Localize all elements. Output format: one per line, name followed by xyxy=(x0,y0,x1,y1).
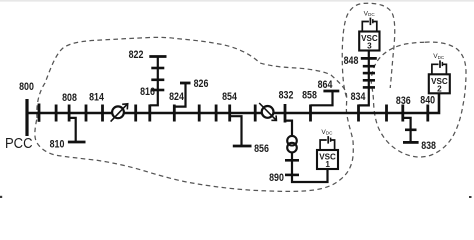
node tick on 848 lateral xyxy=(363,79,375,82)
dc-link capacitor of VSC 3 xyxy=(362,22,377,32)
dc-link capacitor of VSC 1 xyxy=(320,140,335,150)
svg-text:840: 840 xyxy=(420,95,435,107)
bus 814 tick xyxy=(101,105,104,122)
lateral 832-890 wire to transformer xyxy=(285,121,292,137)
svg-text:810: 810 xyxy=(50,139,65,151)
VSC 1 converter xyxy=(317,129,338,169)
svg-text:800: 800 xyxy=(19,81,34,93)
bus 800 bar xyxy=(25,99,28,136)
node tick on 822 lateral xyxy=(151,79,164,82)
wire 890 run to VSC 1 xyxy=(292,152,328,182)
VSC 2 converter xyxy=(429,53,450,93)
bus 832 tick xyxy=(284,104,287,123)
node tick xyxy=(198,105,201,122)
bus 838 bar xyxy=(403,141,419,144)
node tick on 848 lateral xyxy=(363,72,375,75)
svg-text:VDC: VDC xyxy=(321,129,333,136)
lateral 808-810 wire xyxy=(69,118,76,142)
node tick on 848 lateral xyxy=(363,65,375,68)
svg-text:2: 2 xyxy=(437,84,442,93)
dc-link capacitor of VSC 2 xyxy=(432,64,447,74)
bus 854 tick xyxy=(228,105,231,122)
node tick on 890 lateral xyxy=(285,174,299,177)
node tick xyxy=(85,105,88,122)
dashed boundary: microgrid 1 (large left region) xyxy=(35,37,353,191)
svg-text:814: 814 xyxy=(89,92,105,104)
svg-text:1: 1 xyxy=(325,160,330,169)
svg-text:824: 824 xyxy=(169,91,185,103)
transformer T1 bottom winding xyxy=(287,143,297,153)
svg-text:848: 848 xyxy=(344,55,359,67)
svg-text:856: 856 xyxy=(254,143,269,155)
bus labels xyxy=(5,49,436,184)
svg-text:838: 838 xyxy=(421,140,436,152)
transformer T1 top winding xyxy=(287,136,297,146)
corner speck bottom-right xyxy=(469,196,472,198)
bus 808 tick xyxy=(68,105,71,122)
node tick on 890 lateral xyxy=(285,159,299,162)
VSC 3 box xyxy=(359,32,379,51)
VSC 2 box xyxy=(429,74,450,93)
node tick xyxy=(38,104,41,122)
segment ticks on main feeder xyxy=(39,104,428,123)
bus 826 bar xyxy=(180,82,191,85)
dashed boundary: microgrid 2 (right region around VSC 2) xyxy=(371,42,466,157)
bus 840 tick xyxy=(426,105,429,122)
node tick xyxy=(215,105,218,122)
svg-text:3: 3 xyxy=(367,42,372,51)
node tick on 822 lateral xyxy=(151,89,164,92)
node tick xyxy=(254,105,257,122)
svg-text:VDC: VDC xyxy=(364,10,376,17)
bus 864 bar xyxy=(323,90,339,93)
svg-text:858: 858 xyxy=(302,90,317,102)
VSC 1 box xyxy=(317,150,338,169)
bus 834 tick xyxy=(357,105,360,122)
VSC 3 converter xyxy=(359,10,379,50)
lateral 824-826 wire xyxy=(174,83,185,107)
node tick on 838 lateral xyxy=(405,129,417,132)
node tick on 822 lateral xyxy=(151,67,164,70)
bus 858 tick xyxy=(309,105,312,122)
lateral 816-822 wire xyxy=(150,57,158,106)
bus 850 tick xyxy=(134,105,137,122)
bus 816 tick xyxy=(148,105,151,122)
node tick xyxy=(385,105,388,122)
svg-text:854: 854 xyxy=(222,91,238,103)
svg-text:832: 832 xyxy=(279,90,294,102)
lateral 858-864 wire xyxy=(311,91,333,105)
svg-text:836: 836 xyxy=(396,95,411,107)
bus 824 tick xyxy=(173,105,176,122)
bus 836 tick xyxy=(401,105,404,122)
node tick on 848 lateral xyxy=(363,86,375,89)
bus 810 bar xyxy=(68,141,86,144)
lateral 836-838 wire xyxy=(403,118,411,142)
svg-text:816: 816 xyxy=(140,86,155,98)
bus 856 bar xyxy=(233,145,252,148)
voltage regulator VR1 (circle with arrow) xyxy=(111,104,128,122)
node tick xyxy=(55,105,58,122)
lateral 834-848 wire up to VSC 3 xyxy=(359,51,369,106)
svg-text:PCC: PCC xyxy=(5,136,33,152)
corner speck bottom-left xyxy=(0,196,2,198)
svg-text:834: 834 xyxy=(351,91,367,103)
top edge line xyxy=(0,0,474,2)
svg-text:VDC: VDC xyxy=(433,53,445,60)
lateral 854-856 wire xyxy=(230,116,242,146)
svg-text:808: 808 xyxy=(62,92,77,104)
dashed boundary: microgrid 3 (tall oval around VSC 3) xyxy=(342,3,395,97)
voltage regulator VR2 (circle with arrow) xyxy=(259,103,276,120)
main feeder wire 800-840 with riser to VSC 2 xyxy=(26,93,439,113)
svg-text:864: 864 xyxy=(318,79,334,91)
svg-text:890: 890 xyxy=(269,172,284,184)
bus 848 bar xyxy=(361,57,377,60)
svg-text:822: 822 xyxy=(129,49,144,61)
bus 822 bar xyxy=(149,55,166,58)
svg-text:826: 826 xyxy=(194,78,209,90)
